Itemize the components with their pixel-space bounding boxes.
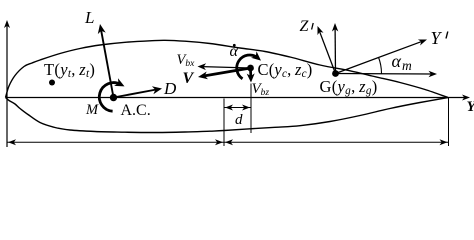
V_bx arrow	[203, 67, 251, 68]
label Vbx	[177, 53, 195, 68]
left vertical Z axis	[6, 25, 8, 147]
extension line below C	[250, 84, 252, 134]
trailing edge extension line	[448, 98, 450, 146]
vertical arrow from G	[334, 28, 336, 73]
label M	[86, 103, 98, 118]
point G	[332, 70, 339, 77]
label A.C.	[121, 103, 151, 119]
label C(yc,zc)	[258, 62, 313, 79]
d dimension	[224, 107, 251, 109]
A.C. point	[110, 94, 117, 101]
label T(yt,zt)	[44, 62, 95, 79]
alpha-dot arc	[237, 55, 258, 79]
airfoil outline	[6, 40, 449, 97]
label V	[183, 71, 194, 87]
alpha_m arc	[379, 58, 382, 74]
drag D arrow	[114, 90, 157, 98]
Z-prime arrow	[319, 31, 335, 74]
label D	[164, 80, 176, 97]
mid extension line	[223, 99, 225, 147]
label G(yg,zg)	[320, 79, 378, 96]
prime of Y-prime	[446, 32, 448, 39]
bottom chord dimension line	[7, 141, 449, 143]
lift L arrow	[101, 30, 114, 98]
V_bz arrow	[249, 68, 252, 77]
label d	[235, 113, 243, 128]
horizontal arrow from G	[336, 73, 432, 76]
moment M arc	[99, 83, 120, 112]
label alpha_m	[392, 52, 412, 70]
label Y axis	[467, 100, 474, 115]
label Vbz	[252, 82, 270, 97]
label alpha-dot	[230, 44, 238, 60]
point C	[247, 65, 254, 72]
V arrow	[204, 68, 251, 76]
label Y-prime	[431, 29, 441, 47]
label L	[85, 9, 94, 26]
point T	[49, 80, 55, 86]
prime of Z-prime	[312, 23, 314, 30]
dot of alpha-dot	[233, 44, 236, 47]
chord line / Y axis	[6, 97, 466, 99]
Y-prime arrow	[336, 41, 423, 73]
label Z-prime	[300, 19, 309, 35]
